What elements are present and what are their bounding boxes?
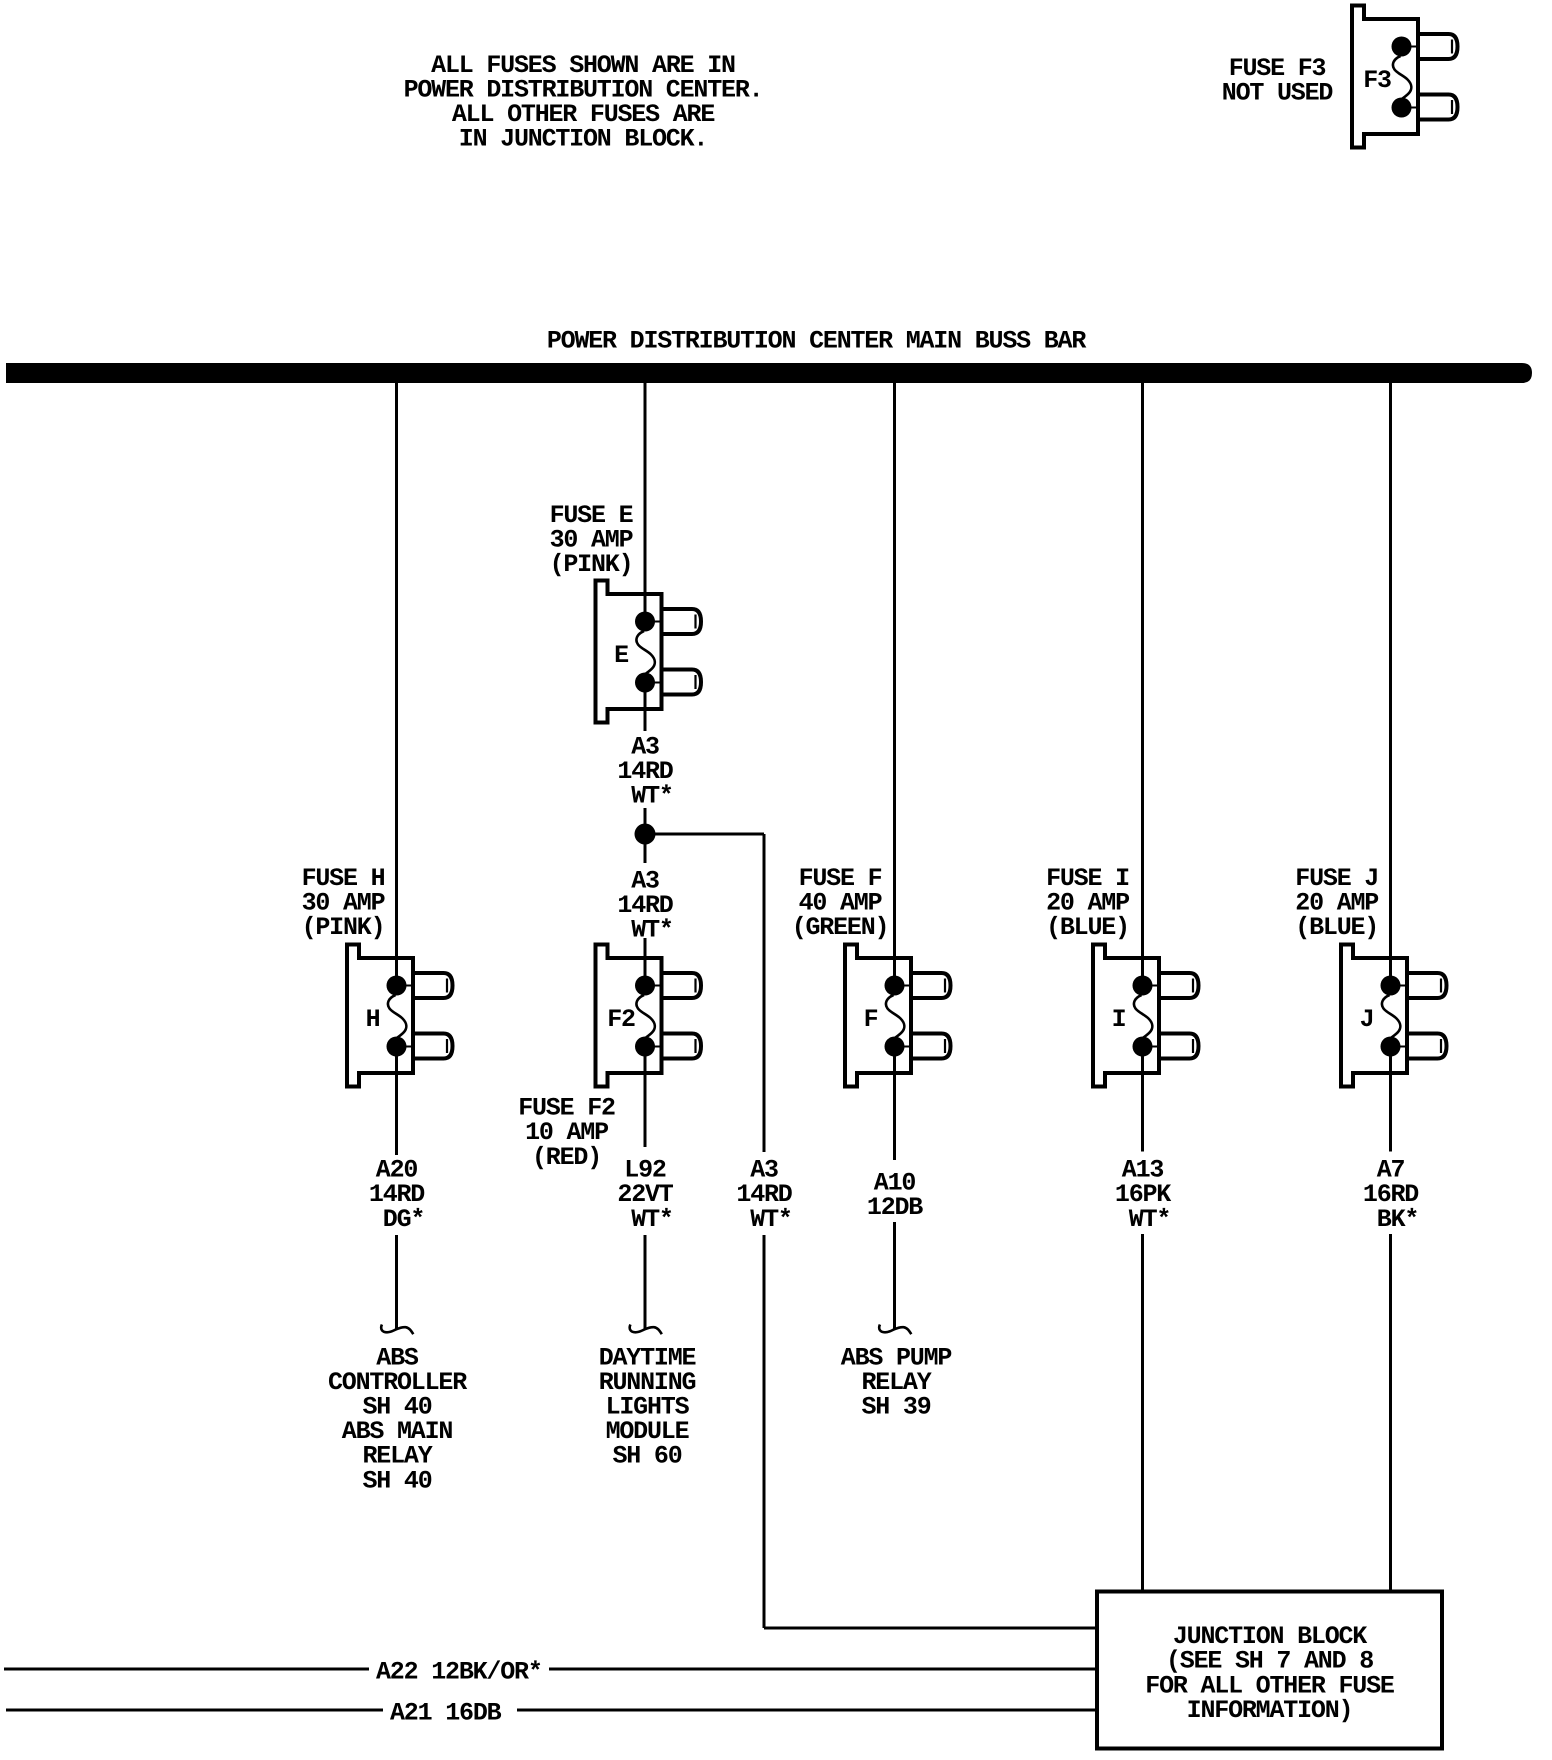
label fuse F3 not used [1222,54,1334,108]
svg-text:F2: F2 [607,1005,635,1034]
wire label L92 to connector [644,1235,647,1330]
wire fuse F to label A10 [893,1047,896,1161]
svg-text:A21 16DB: A21 16DB [390,1699,502,1728]
wire branch label to corner [763,1235,766,1628]
svg-text:12DB: 12DB [867,1193,923,1222]
svg-text:J: J [1360,1005,1374,1034]
wire buss to fuse H [395,383,398,986]
label wire A3 14RD WT second [617,867,673,945]
label ABS pump relay destination [841,1343,952,1421]
svg-text:SH 60: SH 60 [612,1442,681,1471]
label wire A10 12DB [867,1168,923,1222]
wire buss to fuse F [893,383,896,986]
fuse F3 [1352,6,1458,148]
wire label A10 to connector [893,1222,896,1330]
svg-text:WT*: WT* [1129,1205,1170,1234]
wire fuse E to label A3 [644,683,647,732]
fuse F [845,945,951,1087]
label wire A13 16PK WT [1115,1156,1171,1234]
svg-text:NOT USED: NOT USED [1222,79,1334,108]
label wire A20 14RD DG [369,1156,425,1234]
svg-text:I: I [1112,1005,1126,1034]
svg-text:WT*: WT* [631,782,672,811]
svg-text:INFORMATION): INFORMATION) [1187,1696,1353,1725]
wire node branch horizontal [645,833,764,836]
wire A21 right segment to junction block [517,1709,1097,1712]
fuse F2 [596,945,702,1087]
connector to ABS pump relay [879,1325,911,1335]
wire label A3 to node [644,808,647,834]
svg-text:F: F [864,1005,878,1034]
wire branch down to label A3 third [763,834,766,1152]
label ABS controller destination [328,1343,467,1495]
label wire A3 14RD WT first [617,733,673,811]
wire buss to fuse I [1141,383,1144,986]
fuse E [596,581,702,723]
connector to daytime running lights module [630,1325,662,1335]
svg-text:WT*: WT* [631,916,672,945]
label junction block [1145,1622,1394,1725]
wire label A13 to junction block [1141,1234,1144,1590]
svg-text:A22 12BK/OR*: A22 12BK/OR* [376,1657,542,1686]
svg-text:POWER DISTRIBUTION CENTER MAIN: POWER DISTRIBUTION CENTER MAIN BUSS BAR [547,327,1086,356]
fuse I [1093,945,1199,1087]
svg-text:WT*: WT* [631,1205,672,1234]
svg-text:SH 39: SH 39 [861,1393,930,1422]
fuse J [1341,945,1447,1087]
svg-text:(PINK): (PINK) [550,550,633,579]
svg-text:E: E [614,641,628,670]
wire A22 right segment to junction block [549,1668,1097,1671]
label daytime running lights module destination [599,1343,696,1470]
svg-text:WT*: WT* [750,1205,791,1234]
wire node to label A3 second [644,834,647,863]
svg-text:BK*: BK* [1377,1205,1418,1234]
wire fuse J to label A7 [1389,1047,1392,1152]
connector to ABS controller [381,1325,413,1335]
buss bar [6,363,1532,383]
wire A22 left segment [4,1668,369,1671]
label fuse F 40 amp green [792,864,889,942]
svg-text:(PINK): (PINK) [302,913,385,942]
svg-text:DG*: DG* [383,1205,424,1234]
label fuse J 20 amp blue [1295,864,1378,942]
label wire L92 22VT WT [617,1156,673,1234]
wire corner to junction block [764,1627,1097,1630]
wire buss to fuse J [1389,383,1392,986]
wire buss to fuse E [644,383,647,622]
svg-text:(GREEN): (GREEN) [792,913,889,942]
wire label A20 to connector [395,1235,398,1330]
node A3 junction dot [635,824,656,845]
wire label A3 second to fuse F2 [644,938,647,986]
note: all fuses note text [404,51,763,154]
svg-text:F3: F3 [1363,66,1391,95]
svg-text:(BLUE): (BLUE) [1295,913,1378,942]
svg-text:IN JUNCTION BLOCK.: IN JUNCTION BLOCK. [459,125,707,154]
wire fuse H to label A20 [395,1047,398,1156]
svg-text:SH 40: SH 40 [362,1466,431,1495]
wire A21 left segment [6,1709,383,1712]
label fuse F2 10 amp red [518,1094,615,1172]
junction block box [1097,1592,1442,1749]
label fuse I 20 amp blue [1046,864,1129,942]
wire label A7 to junction block [1389,1234,1392,1590]
label fuse H 30 amp pink [302,864,385,942]
svg-text:(RED): (RED) [532,1143,601,1172]
label wire A3 14RD WT third [736,1156,792,1234]
label wire A7 16RD BK [1363,1156,1419,1234]
svg-text:H: H [366,1005,380,1034]
svg-text:(BLUE): (BLUE) [1046,913,1129,942]
fuse H [347,945,453,1087]
wire fuse F2 to label L92 [644,1047,647,1148]
label fuse E 30 amp pink [550,501,633,579]
wire fuse I to label A13 [1141,1047,1144,1152]
